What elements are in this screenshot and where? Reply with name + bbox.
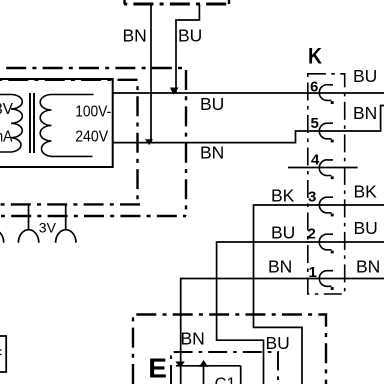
svg-text:BU: BU — [354, 218, 378, 238]
svg-text:3V: 3V — [39, 220, 57, 236]
svg-text:6: 6 — [310, 79, 318, 96]
svg-text:BK: BK — [271, 185, 295, 205]
svg-text:3: 3 — [308, 188, 316, 205]
svg-text:BU: BU — [353, 66, 377, 86]
svg-text:3V: 3V — [0, 101, 14, 118]
svg-text:4: 4 — [311, 152, 320, 169]
svg-text:BN: BN — [353, 103, 377, 123]
svg-text:BN: BN — [181, 329, 205, 349]
svg-text:BN: BN — [123, 26, 147, 46]
svg-text:BN: BN — [200, 142, 224, 162]
svg-text:240V: 240V — [75, 129, 109, 146]
svg-text:mA: mA — [0, 128, 13, 145]
svg-text:BK: BK — [354, 181, 378, 201]
svg-text:BN: BN — [268, 257, 292, 277]
svg-text:2: 2 — [308, 225, 316, 242]
svg-text:C1: C1 — [215, 375, 236, 384]
svg-text:BN: BN — [356, 257, 380, 277]
svg-text:1: 1 — [309, 264, 317, 281]
svg-text:K: K — [308, 43, 322, 68]
svg-text:BU: BU — [271, 222, 295, 242]
svg-text:BU: BU — [178, 26, 202, 46]
svg-text:100V-: 100V- — [75, 104, 111, 121]
svg-text:E: E — [148, 352, 167, 383]
svg-text:BU: BU — [266, 333, 290, 353]
svg-text:BU: BU — [200, 94, 224, 114]
svg-text:5: 5 — [311, 115, 319, 132]
